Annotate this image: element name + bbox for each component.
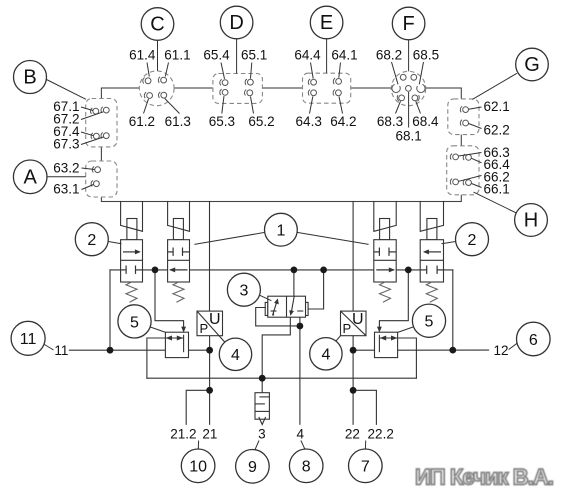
- pins E: [308, 78, 341, 96]
- wire: 12 line from valve 5R to label: [398, 349, 489, 351]
- svg-text:61.3: 61.3: [165, 114, 191, 129]
- svg-text:68.3: 68.3: [377, 114, 403, 129]
- wire: branch 21.2: [186, 390, 209, 424]
- connector A (pins 63.x): [86, 161, 117, 197]
- P/U pressure sensor right (U4): [335, 311, 366, 342]
- svg-text:65.2: 65.2: [248, 114, 274, 129]
- svg-text:C: C: [150, 14, 164, 36]
- callout circle 6 and label 12: [493, 322, 550, 358]
- valve 1L feed wires: [167, 202, 169, 226]
- svg-text:61.1: 61.1: [164, 47, 190, 62]
- callout circle F: [392, 7, 425, 71]
- wire: bottom rail: [147, 377, 417, 379]
- svg-text:P: P: [199, 321, 208, 336]
- callout circle 4 right: [310, 338, 342, 370]
- svg-text:64.1: 64.1: [331, 47, 357, 62]
- svg-text:3: 3: [258, 427, 266, 442]
- leaders E: [311, 63, 314, 79]
- watermark: [415, 465, 554, 490]
- svg-text:4: 4: [297, 427, 305, 442]
- connector E (pins 64.x): [303, 73, 351, 103]
- bottom node labels: [170, 427, 394, 442]
- solenoid valve 2L: [121, 219, 143, 303]
- callout circle 8: [289, 441, 323, 483]
- valve 5L (pressure regulator): [165, 327, 188, 358]
- svg-text:F: F: [402, 13, 414, 35]
- wire: bus node to valve 5R pilot feed: [379, 270, 408, 329]
- callout circle E: [310, 6, 343, 73]
- svg-text:63.1: 63.1: [53, 182, 79, 197]
- svg-text:62.1: 62.1: [484, 99, 510, 114]
- callout circle 3: [227, 273, 271, 306]
- pin leader lines: [81, 62, 482, 190]
- callout circle 7: [349, 441, 383, 483]
- svg-text:68.5: 68.5: [413, 47, 439, 62]
- leaders B: [81, 107, 93, 111]
- svg-text:7: 7: [361, 459, 370, 476]
- wire: branch 22.2: [353, 390, 376, 424]
- callout circle 9: [236, 441, 270, 484]
- wire: valve3 right port down to label 4: [299, 311, 301, 424]
- svg-text:2: 2: [87, 232, 96, 249]
- wire: valve5R left port to node: [353, 349, 374, 351]
- junction dots: [107, 267, 457, 394]
- wire: valve5R right port loop to rail: [398, 338, 417, 378]
- callout circle B: [14, 61, 86, 100]
- svg-text:2: 2: [468, 232, 477, 249]
- svg-text:64.2: 64.2: [330, 114, 356, 129]
- leaders G: [469, 107, 482, 109]
- svg-text:66.1: 66.1: [484, 182, 510, 197]
- pins D: [220, 79, 254, 96]
- svg-text:10: 10: [189, 459, 207, 476]
- connector G (pins 62.x): [448, 99, 479, 135]
- svg-text:68.2: 68.2: [376, 47, 402, 62]
- pins G: [460, 106, 468, 126]
- callout circle G: [472, 48, 548, 99]
- connector B (pins 67.x): [86, 99, 117, 147]
- svg-text:B: B: [23, 67, 36, 89]
- connector pins: [90, 74, 471, 186]
- leaders C: [147, 63, 149, 77]
- svg-text:E: E: [320, 12, 333, 34]
- wire: valve3 left port drain: [256, 308, 300, 326]
- solenoid valve 1L: [168, 219, 190, 303]
- wire: bus to valve3 right pilot cap: [308, 270, 324, 309]
- svg-text:11: 11: [54, 343, 68, 358]
- callout circle 10: [181, 441, 215, 483]
- svg-text:4: 4: [231, 347, 240, 364]
- wire: valve3 bottom port to filter: [262, 317, 290, 393]
- spring below valve 1R: [380, 282, 391, 302]
- callout circle H: [474, 192, 548, 236]
- wire: P/U left bottom down to node 21: [209, 336, 211, 425]
- wire: feed big-block to P/U sensor left: [209, 202, 211, 312]
- wire: valve5L left port loop to rail: [147, 338, 166, 378]
- svg-text:D: D: [229, 12, 243, 34]
- svg-text:H: H: [524, 210, 538, 232]
- wire: P/U right bottom down to node 22: [352, 336, 354, 425]
- spring below valve 2R: [426, 282, 437, 302]
- wire: valve5L right port to node: [189, 349, 210, 351]
- svg-text:64.3: 64.3: [296, 114, 322, 129]
- pin number labels top row: [129, 47, 439, 62]
- svg-text:63.2: 63.2: [53, 160, 79, 175]
- connector C (round, pins 61.x): [139, 71, 174, 106]
- callout circle 11 and label 11: [11, 321, 68, 358]
- svg-text:65.3: 65.3: [209, 114, 235, 129]
- filter/silencer (item 3): [255, 393, 269, 425]
- callout circle 5 right: [398, 304, 446, 337]
- svg-text:9: 9: [248, 459, 257, 476]
- valve 2L feed wires: [120, 202, 122, 226]
- valve 5R (pressure regulator): [375, 327, 398, 358]
- valve 1R feed wires: [373, 202, 375, 232]
- svg-text:67.3: 67.3: [53, 137, 79, 152]
- wire: feed big-block to P/U sensor right: [352, 202, 354, 312]
- svg-text:21: 21: [202, 427, 217, 442]
- callout circle 5 left: [118, 305, 166, 338]
- svg-text:U: U: [352, 311, 364, 328]
- wire: left bus leg down to node 11: [109, 270, 111, 350]
- svg-text:5: 5: [425, 314, 434, 331]
- svg-text:4: 4: [321, 347, 330, 364]
- solenoid valve 1R: [374, 219, 396, 303]
- pins B: [90, 107, 109, 139]
- svg-text:21.2: 21.2: [170, 427, 196, 442]
- svg-text:64.4: 64.4: [294, 47, 321, 62]
- svg-text:8: 8: [302, 459, 311, 476]
- wire: bus node to valve 5L pilot feed: [155, 270, 184, 329]
- pin number labels left column: [53, 99, 80, 197]
- svg-text:11: 11: [20, 331, 37, 348]
- callout circle 1 with pointers to valves 1L and 1R: [194, 213, 368, 246]
- leaders D: [221, 63, 225, 79]
- solenoid valve 2R: [420, 219, 443, 303]
- wire: right bus leg down to node 12: [452, 270, 454, 350]
- svg-text:1: 1: [276, 223, 285, 240]
- svg-text:12: 12: [493, 343, 508, 358]
- svg-text:ИП Кечик В.А.: ИП Кечик В.А.: [415, 465, 554, 490]
- pins C: [143, 77, 167, 99]
- valve 3 (3/2 pilot valve): [265, 296, 308, 317]
- svg-text:A: A: [24, 167, 38, 189]
- svg-text:61.4: 61.4: [129, 47, 156, 62]
- spring below valve 2L: [126, 282, 137, 302]
- valve 2R feed wires: [419, 202, 421, 232]
- svg-text:22: 22: [345, 427, 360, 442]
- pin number labels right column: [484, 99, 511, 196]
- svg-text:68.1: 68.1: [395, 128, 421, 143]
- P/U pressure sensor left (U4): [197, 311, 225, 342]
- wire: 11 line from label to valve 5L: [69, 349, 165, 351]
- callout circle A: [13, 160, 85, 194]
- connector D (pins 65.x): [213, 74, 263, 104]
- wire: bus to valve3 top port: [293, 270, 295, 296]
- svg-text:61.2: 61.2: [129, 114, 155, 129]
- callout circle C: [141, 8, 174, 71]
- callout circle 2 left: [75, 223, 121, 256]
- leaders A: [82, 168, 95, 170]
- svg-text:U: U: [209, 311, 221, 328]
- connector F (round, pins 68.x): [391, 71, 425, 105]
- leaders H: [459, 153, 482, 157]
- wire: main bus y=270: [110, 269, 453, 271]
- svg-text:62.2: 62.2: [484, 123, 510, 138]
- pins A: [91, 166, 100, 186]
- pin number labels second row: [129, 114, 439, 143]
- svg-text:6: 6: [529, 332, 538, 349]
- svg-text:3: 3: [239, 283, 248, 300]
- pins F: [392, 74, 425, 101]
- svg-text:G: G: [524, 54, 540, 76]
- valve block body outline: [101, 88, 461, 202]
- callout circle 4 left: [219, 338, 251, 370]
- svg-text:P: P: [342, 321, 351, 336]
- svg-text:5: 5: [130, 314, 139, 331]
- spring below valve 1L: [173, 282, 184, 302]
- pins H: [450, 154, 471, 186]
- callout circle D: [220, 6, 253, 73]
- connector H (pins 66.x): [447, 146, 479, 195]
- callout circle 2 right: [442, 223, 489, 256]
- svg-text:22.2: 22.2: [368, 427, 394, 442]
- svg-text:65.4: 65.4: [203, 47, 230, 62]
- svg-text:65.1: 65.1: [241, 47, 267, 62]
- leaders F: [392, 62, 399, 84]
- svg-text:68.4: 68.4: [412, 114, 439, 129]
